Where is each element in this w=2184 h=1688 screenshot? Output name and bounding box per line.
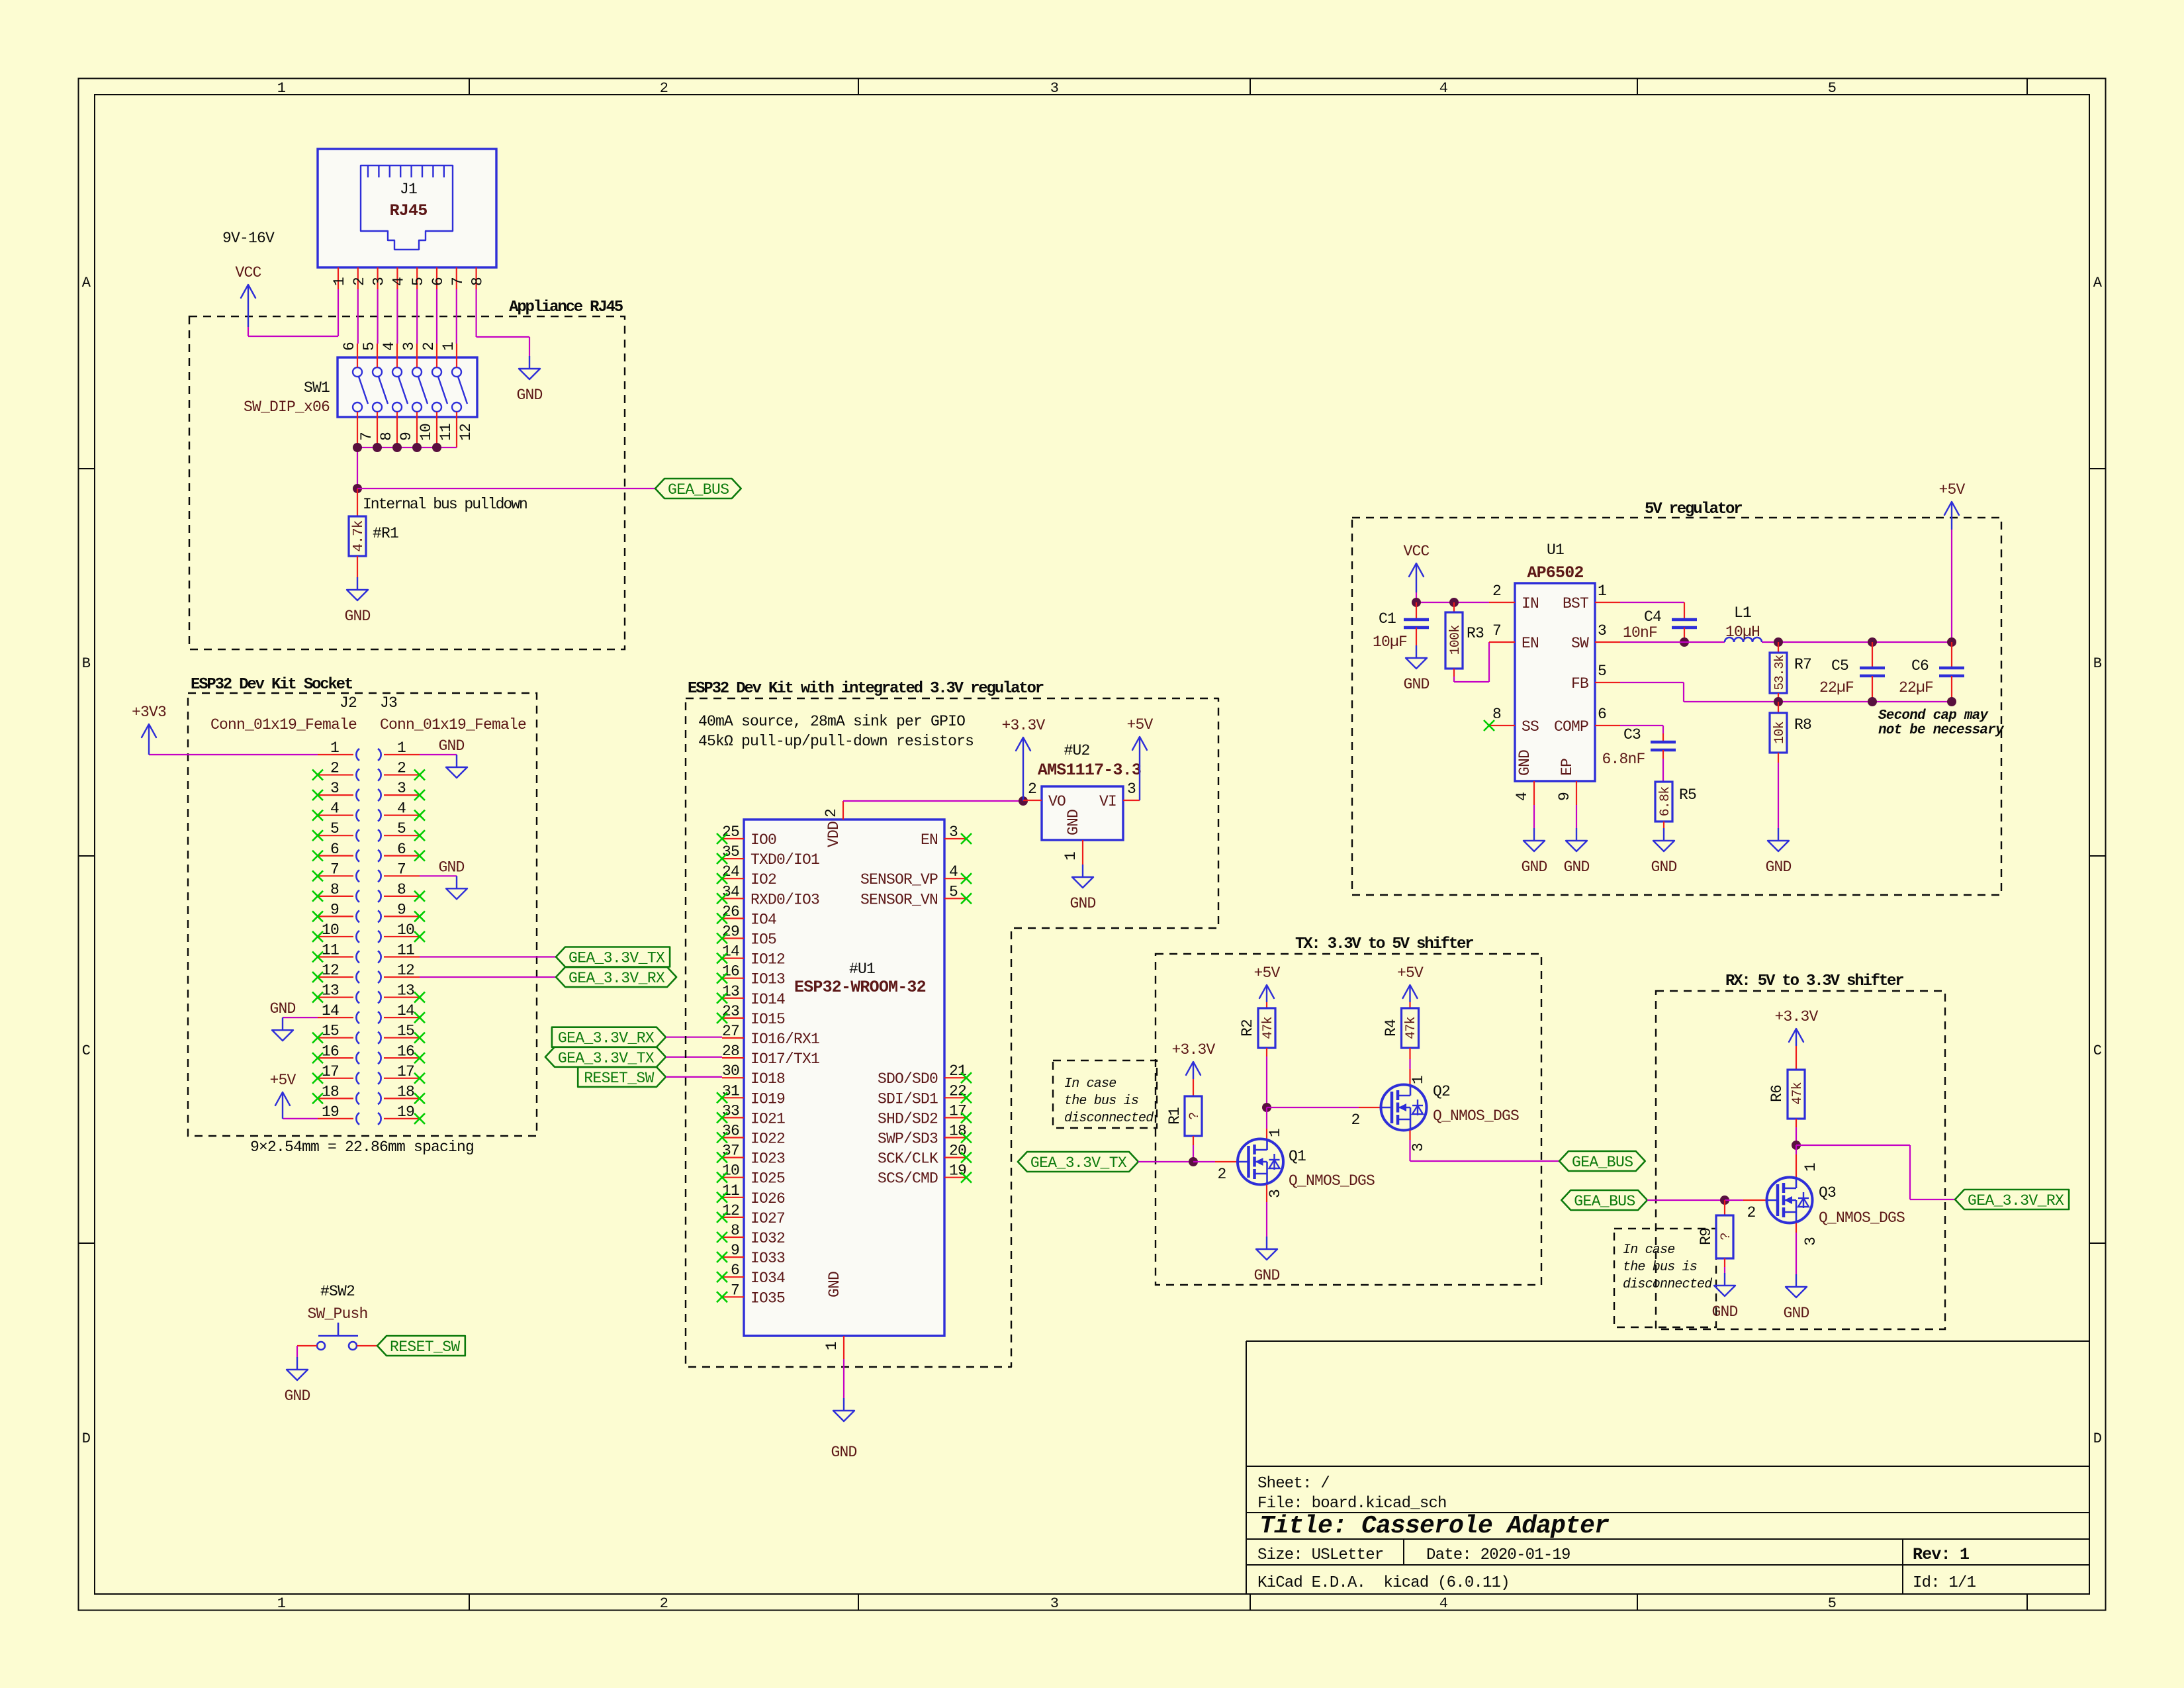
svg-text:R7: R7 xyxy=(1794,656,1811,673)
U1 SW pin xyxy=(1571,622,1620,652)
svg-text:10: 10 xyxy=(397,921,414,939)
svg-text:BST: BST xyxy=(1563,595,1588,612)
svg-text:16: 16 xyxy=(397,1043,414,1060)
svg-text:In case: In case xyxy=(1623,1243,1674,1258)
#SW2 reference xyxy=(320,1283,355,1300)
svg-text:RESET_SW: RESET_SW xyxy=(584,1070,654,1087)
connector J2 pins xyxy=(318,739,359,1125)
text gpio note1 xyxy=(698,713,965,730)
Q3 source pin number xyxy=(1802,1237,1819,1246)
svg-text:4: 4 xyxy=(1439,1595,1448,1612)
title block id xyxy=(1913,1574,1976,1592)
svg-text:J1: J1 xyxy=(400,181,417,198)
svg-text:9: 9 xyxy=(397,901,406,918)
#U1 reference xyxy=(849,961,875,978)
svg-text:47k: 47k xyxy=(1404,1017,1419,1039)
svg-text:5: 5 xyxy=(1828,80,1836,97)
svg-text:12: 12 xyxy=(397,962,414,979)
connector J3 pins xyxy=(378,739,420,1125)
svg-text:IO13: IO13 xyxy=(751,971,785,988)
svg-text:13: 13 xyxy=(322,982,339,1000)
svg-text:disconnected: disconnected xyxy=(1623,1277,1712,1292)
R9 reference xyxy=(1698,1228,1715,1245)
label GEA_3.3V_TX at J3-11 xyxy=(556,947,670,967)
svg-text:+5V: +5V xyxy=(269,1072,296,1089)
wire label to IO16 xyxy=(666,1037,722,1038)
Q1 value xyxy=(1289,1172,1375,1190)
U1 COMP pin xyxy=(1554,706,1620,735)
svg-text:3: 3 xyxy=(1410,1143,1427,1152)
text socket spacing note xyxy=(250,1139,474,1156)
svg-text:9: 9 xyxy=(398,432,415,441)
wire junction to Q3 drain xyxy=(1796,1145,1797,1178)
svg-text:Internal bus pulldown: Internal bus pulldown xyxy=(363,496,527,513)
svg-text:VCC: VCC xyxy=(235,264,261,281)
capacitor C1 10uF xyxy=(1404,602,1429,645)
svg-text:5: 5 xyxy=(1598,663,1606,680)
ESP32 module section box xyxy=(686,698,1218,1367)
wire VDD to +3.3V node xyxy=(843,800,1023,802)
ground at Q1 xyxy=(1253,1237,1279,1284)
power +3.3V at R1 xyxy=(1171,1041,1215,1079)
svg-text:Q2: Q2 xyxy=(1433,1083,1450,1100)
svg-text:3: 3 xyxy=(1050,1595,1058,1612)
TX section title xyxy=(1295,935,1473,953)
wire FB row xyxy=(1620,682,1952,702)
SW1 value SW_DIP_x06 xyxy=(244,399,330,416)
svg-text:11: 11 xyxy=(322,942,339,959)
ground at R5 xyxy=(1651,828,1676,876)
svg-text:A: A xyxy=(2093,275,2103,291)
svg-text:26: 26 xyxy=(722,903,739,920)
C6 value xyxy=(1899,679,1933,696)
svg-text:22µF: 22µF xyxy=(1899,679,1933,696)
svg-text:GND: GND xyxy=(1516,750,1533,776)
transistor Q2 Q_NMOS_DGS xyxy=(1381,1085,1427,1131)
svg-text:4: 4 xyxy=(390,277,407,286)
svg-text:D: D xyxy=(2093,1430,2102,1447)
svg-text:B: B xyxy=(82,655,91,672)
svg-text:GEA_3.3V_RX: GEA_3.3V_RX xyxy=(558,1030,655,1047)
Q3 value xyxy=(1819,1209,1905,1227)
svg-text:IO4: IO4 xyxy=(751,911,776,928)
power VCC at regulator xyxy=(1403,543,1429,592)
wire bus to GEA_BUS label xyxy=(357,488,655,489)
#U1 left pins xyxy=(717,823,819,1307)
SW1 pins xyxy=(341,342,475,447)
svg-text:GEA_3.3V_RX: GEA_3.3V_RX xyxy=(1968,1192,2064,1209)
svg-text:9: 9 xyxy=(330,901,339,918)
svg-text:SDI/SD1: SDI/SD1 xyxy=(878,1090,938,1107)
IC U1 AP6502 body xyxy=(1515,583,1595,781)
svg-text:R5: R5 xyxy=(1679,786,1696,804)
svg-text:14: 14 xyxy=(397,1002,414,1019)
svg-text:2: 2 xyxy=(330,760,339,777)
ground at U1 GND xyxy=(1521,828,1547,876)
wire U1 GND xyxy=(843,1359,844,1398)
wire R1 to gate node xyxy=(1193,1145,1194,1162)
svg-text:14: 14 xyxy=(722,943,739,961)
svg-text:5: 5 xyxy=(410,277,427,286)
svg-text:4: 4 xyxy=(330,800,339,818)
svg-text:4: 4 xyxy=(1514,792,1531,801)
svg-text:File: board.kicad_sch: File: board.kicad_sch xyxy=(1257,1495,1447,1513)
svg-text:5: 5 xyxy=(1828,1595,1836,1612)
svg-text:4: 4 xyxy=(949,863,958,880)
svg-text:8: 8 xyxy=(378,432,395,441)
resistor R3 100k xyxy=(1445,602,1463,677)
svg-text:40mA source, 28mA sink per GPI: 40mA source, 28mA sink per GPIO xyxy=(698,713,965,730)
wire R6 to junction xyxy=(1796,1127,1797,1145)
resistor R7 53.3k xyxy=(1770,642,1787,702)
svg-text:SCK/CLK: SCK/CLK xyxy=(878,1150,938,1168)
svg-text:2: 2 xyxy=(397,760,406,777)
junction C5 top xyxy=(1868,637,1877,647)
svg-text:8: 8 xyxy=(330,881,339,898)
svg-text:Date: 2020-01-19: Date: 2020-01-19 xyxy=(1426,1546,1570,1564)
RX note box xyxy=(1614,1229,1716,1327)
svg-text:IO17/TX1: IO17/TX1 xyxy=(751,1051,819,1068)
junction VCC-R3 xyxy=(1449,598,1459,607)
wire junction down to Q1 drain xyxy=(1266,1107,1267,1139)
C6 reference xyxy=(1911,657,1929,675)
svg-text:R9: R9 xyxy=(1698,1228,1715,1245)
U1 IN pin xyxy=(1489,583,1539,612)
J2 reference xyxy=(340,694,357,712)
svg-text:IO16/RX1: IO16/RX1 xyxy=(751,1031,819,1048)
capacitor C6 22uF xyxy=(1939,642,1964,702)
svg-text:6: 6 xyxy=(341,342,358,351)
power +5V at U2 xyxy=(1126,716,1153,800)
C4 value xyxy=(1623,624,1657,641)
svg-text:5: 5 xyxy=(361,342,378,351)
svg-text:1: 1 xyxy=(331,277,348,286)
svg-text:3: 3 xyxy=(397,780,406,797)
svg-text:VI: VI xyxy=(1099,793,1116,810)
ground at SW2 xyxy=(284,1357,310,1405)
svg-text:+5V: +5V xyxy=(1397,964,1424,982)
svg-text:EP: EP xyxy=(1559,759,1576,776)
C1 value xyxy=(1373,633,1407,651)
svg-text:53.3k: 53.3k xyxy=(1772,655,1787,690)
svg-text:36: 36 xyxy=(722,1123,739,1140)
svg-text:5: 5 xyxy=(949,883,958,900)
power +5V at J2-19 xyxy=(269,1072,296,1119)
svg-text:2: 2 xyxy=(1747,1204,1755,1221)
svg-text:C: C xyxy=(82,1043,91,1059)
svg-text:GND: GND xyxy=(344,608,370,625)
svg-text:B: B xyxy=(2093,655,2102,672)
svg-text:C4: C4 xyxy=(1644,608,1661,626)
svg-text:2: 2 xyxy=(823,809,840,818)
label GEA_3.3V_RX to IO16 xyxy=(552,1027,666,1047)
Q3 gate pin number xyxy=(1747,1204,1755,1221)
wire Q3 source to GND xyxy=(1796,1223,1797,1275)
text second cap note xyxy=(1878,708,2005,738)
svg-text:#U2: #U2 xyxy=(1064,742,1089,759)
svg-text:Q_NMOS_DGS: Q_NMOS_DGS xyxy=(1433,1107,1519,1125)
svg-text:37: 37 xyxy=(722,1143,739,1160)
svg-text:GND: GND xyxy=(438,737,464,755)
svg-text:ESP32 Dev Kit with integrated: ESP32 Dev Kit with integrated 3.3V regul… xyxy=(688,680,1044,698)
svg-text:D: D xyxy=(82,1430,91,1447)
svg-text:22µF: 22µF xyxy=(1819,679,1854,696)
svg-text:10: 10 xyxy=(418,424,435,441)
svg-text:18: 18 xyxy=(949,1123,966,1140)
Q1 gate pin number xyxy=(1217,1166,1226,1183)
svg-text:10µF: 10µF xyxy=(1373,633,1407,651)
svg-text:R8: R8 xyxy=(1794,716,1811,733)
svg-text:GND: GND xyxy=(1403,676,1429,693)
Q3 reference xyxy=(1819,1184,1836,1201)
R8 reference xyxy=(1794,716,1811,733)
svg-text:9×2.54mm = 22.86mm spacing: 9×2.54mm = 22.86mm spacing xyxy=(250,1139,474,1156)
svg-text:4.7k: 4.7k xyxy=(351,520,367,551)
#U1 GND pin xyxy=(823,1272,844,1359)
wire SW1 bottom bus xyxy=(353,412,457,489)
IC #U1 ESP32 body xyxy=(744,820,944,1336)
L1 value xyxy=(1725,624,1760,641)
C4 reference xyxy=(1644,608,1661,626)
svg-text:8: 8 xyxy=(469,277,486,286)
J1 pins 1-8 xyxy=(331,267,486,289)
R6 reference xyxy=(1768,1085,1786,1102)
resistor R2 47k xyxy=(1258,1002,1276,1056)
svg-text:GND: GND xyxy=(1711,1303,1737,1321)
svg-text:1: 1 xyxy=(440,342,457,351)
svg-text:RJ45: RJ45 xyxy=(390,201,428,220)
svg-text:C3: C3 xyxy=(1623,726,1641,743)
svg-text:SENSOR_VP: SENSOR_VP xyxy=(860,871,938,888)
Q1 source pin number xyxy=(1267,1190,1284,1198)
#U2 VI pin xyxy=(1099,780,1140,810)
svg-text:Second cap may: Second cap may xyxy=(1878,708,1989,724)
inductor L1 10uH xyxy=(1725,637,1762,642)
no-connect J2 xyxy=(312,770,323,1104)
svg-text:7: 7 xyxy=(449,277,467,286)
resistor R4 47k xyxy=(1402,1002,1420,1059)
wire J2-14 to GND xyxy=(283,1017,318,1018)
wires J1 pins2-7 to SW1 xyxy=(358,289,457,344)
label GEA_BUS at SW1 xyxy=(655,479,741,498)
power +5V at R4 xyxy=(1397,964,1424,1002)
title block sheet text xyxy=(1257,1475,1447,1513)
svg-text:GND: GND xyxy=(1065,810,1082,835)
ground at J3-7 xyxy=(438,859,467,899)
wire label to IO17 xyxy=(666,1056,722,1058)
svg-text:1: 1 xyxy=(1410,1076,1427,1084)
Q2 value xyxy=(1433,1107,1519,1125)
svg-text:47k: 47k xyxy=(1261,1017,1276,1039)
svg-text:?: ? xyxy=(1187,1112,1203,1119)
wire J1 pin1 to VCC xyxy=(248,289,338,336)
wire SW row xyxy=(1620,641,1725,643)
svg-text:9: 9 xyxy=(731,1242,739,1259)
U1 reference xyxy=(1547,541,1564,559)
svg-text:Q1: Q1 xyxy=(1289,1148,1306,1165)
svg-text:2: 2 xyxy=(1351,1111,1359,1129)
Q1 drain pin number xyxy=(1267,1129,1284,1137)
junction R6-Q3drain xyxy=(1792,1141,1801,1150)
label GEA_BUS at RX input xyxy=(1561,1190,1647,1210)
R5 reference xyxy=(1679,786,1696,804)
svg-text:1: 1 xyxy=(823,1342,841,1350)
ESP32 Dev Kit Socket section box xyxy=(188,693,537,1136)
svg-text:GND: GND xyxy=(1069,895,1095,912)
ground at J2-14 xyxy=(269,1000,295,1041)
Q1 reference xyxy=(1289,1148,1306,1165)
svg-text:RESET_SW: RESET_SW xyxy=(390,1338,460,1356)
resistor R1 ? xyxy=(1185,1079,1203,1145)
U1 EP pin xyxy=(1556,759,1576,805)
junction R9-gate xyxy=(1720,1196,1729,1205)
svg-text:Sheet: /: Sheet: / xyxy=(1257,1475,1330,1493)
switch #SW2 SW_Push body xyxy=(317,1323,358,1350)
svg-text:VDD: VDD xyxy=(825,821,842,847)
svg-text:IN: IN xyxy=(1522,595,1539,612)
svg-text:IO18: IO18 xyxy=(751,1070,785,1088)
resistor #R1 4.7k xyxy=(349,516,367,556)
svg-text:RX: 5V to 3.3V shifter: RX: 5V to 3.3V shifter xyxy=(1725,972,1903,990)
ground at Q3 xyxy=(1783,1274,1809,1322)
svg-text:SW_Push: SW_Push xyxy=(307,1305,367,1323)
svg-text:10µH: 10µH xyxy=(1725,624,1760,641)
label RESET_SW to IO18 xyxy=(578,1067,666,1087)
svg-text:#R1: #R1 xyxy=(373,525,398,542)
ground at R1 xyxy=(344,577,370,625)
wire J3-7 to GND xyxy=(420,875,457,876)
#SW2 value SW_Push xyxy=(307,1305,367,1323)
power VCC at RJ45 xyxy=(235,264,261,327)
svg-text:GND: GND xyxy=(284,1387,310,1405)
wire BST to C4 xyxy=(1620,602,1684,603)
svg-text:10nF: 10nF xyxy=(1623,624,1657,641)
RX section title xyxy=(1725,972,1903,990)
svg-text:1: 1 xyxy=(1062,852,1079,861)
svg-text:7: 7 xyxy=(330,861,339,878)
wire U1 EP down xyxy=(1576,805,1577,828)
svg-text:19: 19 xyxy=(397,1103,414,1121)
svg-text:5: 5 xyxy=(330,820,339,837)
svg-text:IO19: IO19 xyxy=(751,1090,785,1107)
switch SW1 SW_DIP_x06 body xyxy=(338,357,477,417)
svg-text:10: 10 xyxy=(322,921,339,939)
svg-text:KiCad E.D.A. kicad (6.0.11): KiCad E.D.A. kicad (6.0.11) xyxy=(1257,1574,1510,1592)
C3 reference xyxy=(1623,726,1641,743)
svg-text:+3.3V: +3.3V xyxy=(1171,1041,1215,1058)
resistor R9 ? xyxy=(1716,1200,1734,1267)
svg-text:12: 12 xyxy=(322,962,339,979)
R7 reference xyxy=(1794,656,1811,673)
svg-text:GND: GND xyxy=(269,1000,295,1017)
svg-text:29: 29 xyxy=(722,923,739,941)
capacitor C4 10nF xyxy=(1672,602,1697,642)
svg-text:C1: C1 xyxy=(1379,610,1396,628)
svg-text:IO35: IO35 xyxy=(751,1289,785,1307)
svg-text:EN: EN xyxy=(1522,635,1539,652)
svg-text:COMP: COMP xyxy=(1554,718,1588,735)
Appliance RJ45 section box xyxy=(189,316,625,649)
svg-text:Q_NMOS_DGS: Q_NMOS_DGS xyxy=(1819,1209,1905,1227)
wire R9 to GND xyxy=(1724,1267,1725,1273)
svg-text:GND: GND xyxy=(1651,859,1676,876)
title block size/date xyxy=(1257,1546,1570,1564)
C5 value xyxy=(1819,679,1854,696)
J1 reference xyxy=(400,181,417,198)
svg-text:+3V3: +3V3 xyxy=(132,704,166,721)
svg-text:GND: GND xyxy=(438,859,464,876)
svg-text:1: 1 xyxy=(1598,583,1606,600)
ground at C1 xyxy=(1403,645,1429,693)
svg-text:11: 11 xyxy=(437,424,455,441)
transistor Q3 Q_NMOS_DGS xyxy=(1767,1178,1813,1223)
svg-text:IO12: IO12 xyxy=(751,951,785,968)
svg-text:C: C xyxy=(2093,1043,2102,1059)
wire J2-1 to +3V3 xyxy=(149,754,318,755)
title block kicad xyxy=(1257,1574,1510,1592)
wire J2-19 to +5V xyxy=(283,1118,318,1119)
svg-text:R3: R3 xyxy=(1467,625,1484,642)
resistor R6 47k xyxy=(1788,1046,1805,1127)
power +3.3V at R6 xyxy=(1774,1008,1818,1046)
label RESET_SW at SW2 xyxy=(377,1336,465,1356)
svg-text:100k: 100k xyxy=(1448,626,1463,655)
title block rev xyxy=(1913,1545,1969,1564)
no-connect J3 xyxy=(414,770,425,1124)
svg-text:17: 17 xyxy=(397,1063,414,1080)
svg-text:4: 4 xyxy=(1439,80,1448,97)
svg-text:IO21: IO21 xyxy=(751,1110,785,1127)
svg-text:C6: C6 xyxy=(1911,657,1929,675)
svg-text:GEA_3.3V_TX: GEA_3.3V_TX xyxy=(558,1050,655,1067)
svg-text:7: 7 xyxy=(358,432,375,441)
svg-text:IO0: IO0 xyxy=(751,831,776,849)
svg-text:Rev: 1: Rev: 1 xyxy=(1913,1545,1969,1564)
svg-text:12: 12 xyxy=(457,424,475,441)
svg-text:3: 3 xyxy=(1050,80,1058,97)
svg-text:23: 23 xyxy=(722,1003,739,1020)
wire Q2 source to GEA_BUS xyxy=(1410,1131,1560,1162)
svg-text:GEA_3.3V_RX: GEA_3.3V_RX xyxy=(569,970,665,987)
svg-text:SWP/SD3: SWP/SD3 xyxy=(878,1131,938,1148)
svg-text:GEA_BUS: GEA_BUS xyxy=(668,481,729,498)
svg-text:In case: In case xyxy=(1064,1076,1116,1092)
ground at R9 xyxy=(1711,1273,1737,1321)
svg-text:A: A xyxy=(82,275,91,291)
Q2 reference xyxy=(1433,1083,1450,1100)
svg-text:L1: L1 xyxy=(1734,604,1751,622)
svg-text:GND: GND xyxy=(1521,859,1547,876)
wire J3-12 to label xyxy=(420,976,556,978)
svg-text:C5: C5 xyxy=(1831,657,1848,675)
svg-text:+3.3V: +3.3V xyxy=(1001,717,1045,734)
svg-text:IO32: IO32 xyxy=(751,1230,785,1247)
RX section box xyxy=(1656,991,1945,1329)
svg-text:9V-16V: 9V-16V xyxy=(222,230,275,247)
junction R2-Q1drain-Q2gate xyxy=(1262,1103,1271,1112)
svg-text:1: 1 xyxy=(277,1595,286,1612)
svg-text:SS: SS xyxy=(1522,718,1539,735)
wire junction to GEA_3.3V_RX xyxy=(1796,1145,1955,1199)
connector J1 RJ45 body xyxy=(318,149,496,267)
svg-text:16: 16 xyxy=(722,963,739,980)
Q3 drain pin number xyxy=(1802,1163,1819,1172)
svg-text:GND: GND xyxy=(826,1272,843,1297)
5V regulator section box xyxy=(1352,518,2001,895)
capacitor C5 22uF xyxy=(1860,642,1885,702)
svg-text:the bus is: the bus is xyxy=(1064,1094,1138,1109)
svg-text:2: 2 xyxy=(660,1595,668,1612)
